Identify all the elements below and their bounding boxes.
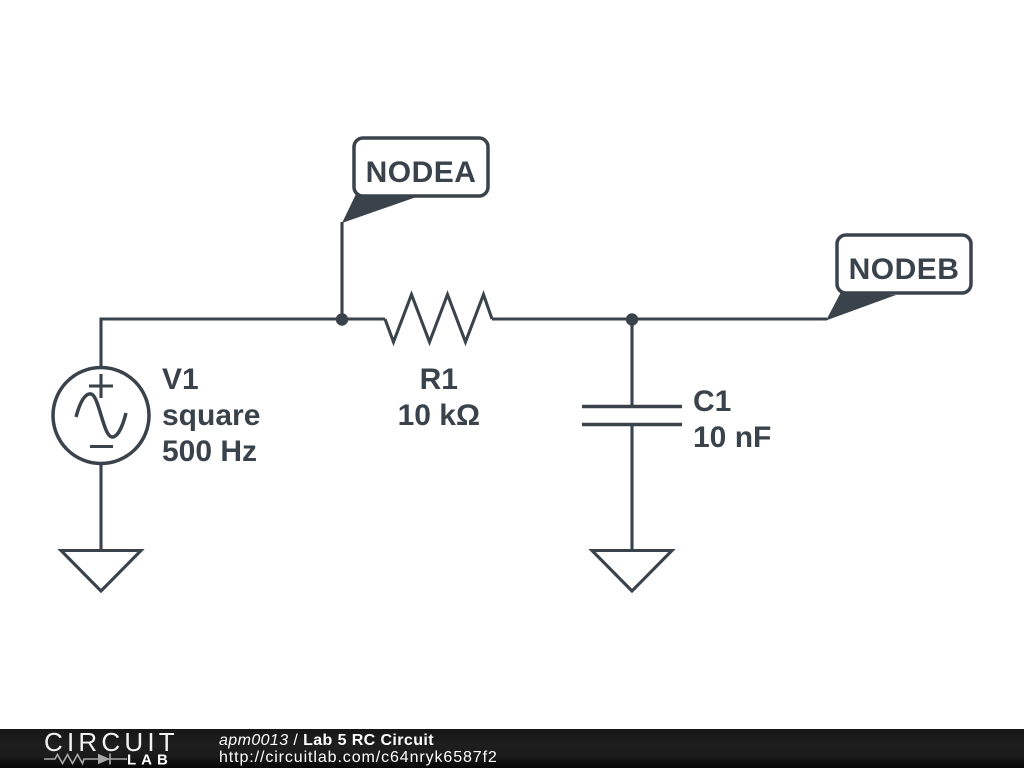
node label NODEB [826,235,971,321]
svg-text:V1: V1 [162,363,199,396]
ground [592,551,672,592]
svg-text:C1: C1 [693,385,731,418]
wire [630,426,633,551]
wire [630,319,633,405]
wire [340,222,343,319]
voltage source V1 [53,368,149,464]
svg-text:10 nF: 10 nF [693,421,771,454]
svg-text:10 kΩ: 10 kΩ [398,399,480,432]
svg-text:square: square [162,399,260,432]
wire [99,464,102,551]
svg-text:NODEA: NODEA [366,156,477,189]
svg-text:R1: R1 [420,363,458,396]
node label NODEA [342,138,488,223]
svg-text:LAB: LAB [127,752,173,768]
V1 value label [162,399,260,468]
svg-text:500 Hz: 500 Hz [162,435,257,468]
wire [101,319,385,368]
capacitor C1 [582,407,682,425]
svg-text:NODEB: NODEB [849,253,960,286]
resistor R1 [385,295,492,343]
node B [626,313,638,325]
ground [61,551,141,592]
node A [336,313,348,325]
wire [492,317,827,320]
